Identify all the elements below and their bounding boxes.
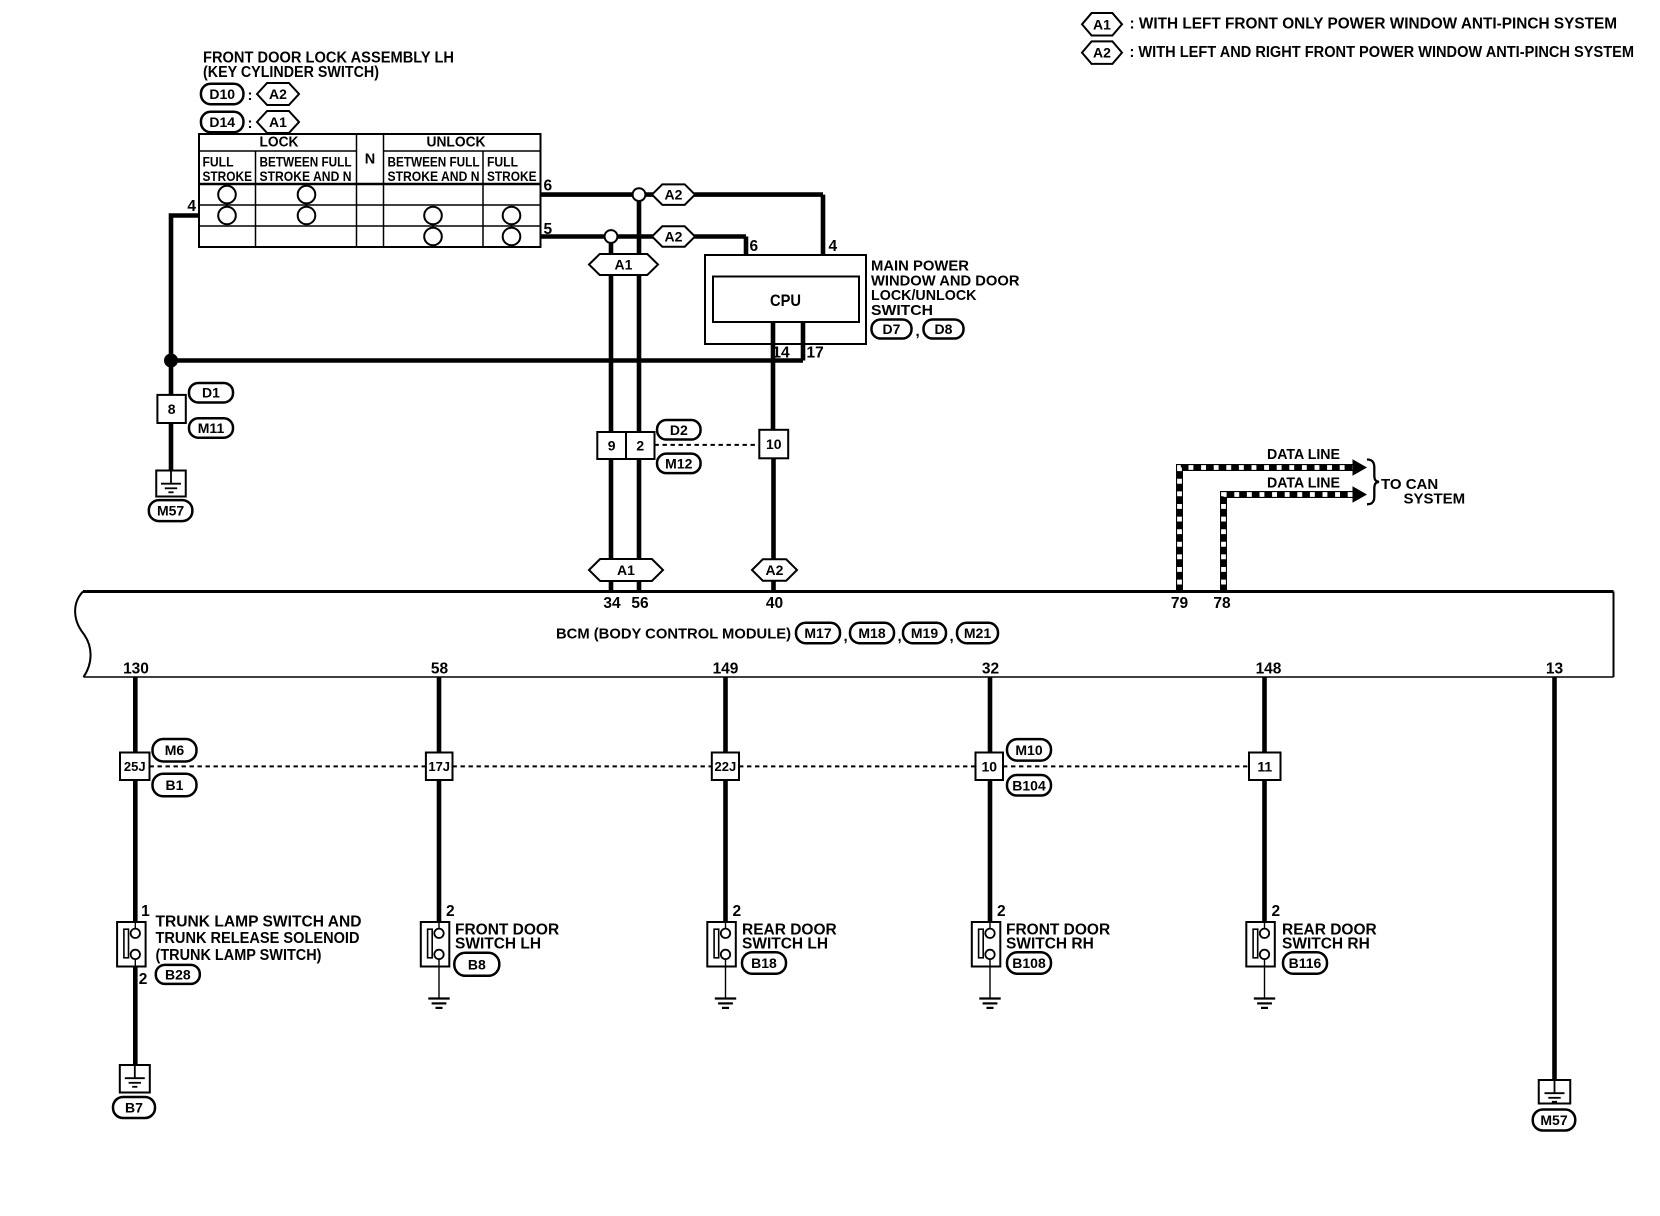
- ground (M57 left): [156, 471, 186, 497]
- svg-text:M18: M18: [858, 625, 885, 641]
- wire CPU pin 14 down: [771, 322, 776, 432]
- svg-text:13: 13: [1546, 661, 1564, 678]
- svg-text:22J: 22J: [715, 759, 737, 774]
- svg-text:1: 1: [141, 903, 150, 920]
- wire front door switch LH to ground: [438, 967, 440, 999]
- ground (B7): [120, 1065, 150, 1093]
- svg-text:A1: A1: [269, 114, 287, 130]
- svg-text:B108: B108: [1012, 955, 1046, 971]
- front door switch LH symbol: [421, 922, 450, 967]
- svg-text:STROKE AND N: STROKE AND N: [260, 168, 352, 184]
- svg-text:32: 32: [982, 661, 999, 678]
- wire pin6 from table to A2: [541, 192, 824, 197]
- svg-text:8: 8: [168, 401, 176, 417]
- wire BCM pin148 to rear door switch RH: [1262, 677, 1267, 922]
- wire BCM pin32 to front door switch RH: [988, 677, 993, 922]
- svg-text:B8: B8: [468, 956, 486, 972]
- wire bus from junction to CPU pin17: [171, 358, 803, 363]
- svg-text:4: 4: [187, 198, 196, 215]
- svg-text:DATA LINE: DATA LINE: [1267, 476, 1340, 492]
- svg-text:2: 2: [733, 903, 742, 920]
- svg-text:4: 4: [829, 238, 838, 255]
- svg-text:A2: A2: [1093, 45, 1111, 61]
- svg-text:D7: D7: [883, 321, 901, 337]
- junction node on pin6 wire: [633, 188, 646, 201]
- connector D7: [872, 320, 912, 339]
- wire node branch left (x611): [609, 237, 614, 592]
- svg-text:5: 5: [544, 221, 553, 238]
- svg-text:17: 17: [807, 345, 824, 362]
- svg-text:D8: D8: [935, 321, 953, 337]
- data line wire (pin 79): [1180, 468, 1353, 592]
- ground (front door switch RH): [979, 999, 1000, 1008]
- svg-text::: :: [248, 115, 253, 132]
- connector ref A1 (mid): [589, 254, 658, 275]
- connector pin box 17J: [426, 753, 453, 781]
- svg-text:17J: 17J: [428, 759, 450, 774]
- switch contacts unlock between-full-stroke: [424, 207, 442, 246]
- ground (front door switch LH): [428, 999, 449, 1008]
- svg-text:(KEY CYLINDER SWITCH): (KEY CYLINDER SWITCH): [203, 64, 379, 81]
- connector pin box 9: [597, 432, 626, 459]
- svg-text:79: 79: [1171, 595, 1189, 612]
- wire BCM pin130 to trunk switch: [133, 677, 138, 922]
- connector pin box 10 (D2/M12): [759, 430, 788, 459]
- svg-text:25J: 25J: [124, 759, 146, 774]
- svg-text:B104: B104: [1012, 777, 1046, 793]
- connector pin box 25J: [120, 753, 150, 781]
- connector M10: [1007, 739, 1051, 761]
- switch contacts unlock full-stroke: [503, 207, 521, 246]
- rear door switch RH symbol: [1246, 922, 1275, 967]
- svg-text:130: 130: [123, 661, 149, 678]
- svg-text:58: 58: [431, 661, 449, 678]
- svg-text:,: ,: [898, 628, 902, 645]
- wire node branch right (x639): [637, 195, 642, 592]
- svg-text:2: 2: [997, 903, 1006, 920]
- svg-text:,: ,: [950, 628, 954, 645]
- svg-text:M12: M12: [665, 455, 692, 471]
- svg-text:M17: M17: [804, 625, 831, 641]
- BCM body control module box: [75, 592, 1613, 678]
- svg-text:D1: D1: [202, 385, 220, 401]
- main power window switch outer box: [705, 255, 866, 344]
- svg-text:B116: B116: [1289, 955, 1322, 971]
- connector ref A1 (above BCM): [589, 559, 663, 581]
- svg-text:2: 2: [1272, 903, 1281, 920]
- connector D1: [189, 383, 233, 403]
- key cylinder switch table grid: [199, 134, 541, 247]
- ground name M57 (left): [149, 500, 193, 521]
- connector ref A1 (D14): [257, 111, 299, 133]
- svg-text:11: 11: [1257, 758, 1272, 774]
- connector pin box 8: [157, 395, 185, 423]
- ground (rear door switch RH): [1254, 999, 1275, 1008]
- svg-text:D14: D14: [209, 114, 235, 130]
- connector M11: [189, 418, 233, 438]
- svg-text:B1: B1: [166, 777, 184, 793]
- legend connector A1: [1082, 13, 1122, 36]
- dashed connector link D2/M12: [655, 444, 760, 446]
- svg-text:TRUNK RELEASE SOLENOID: TRUNK RELEASE SOLENOID: [156, 930, 360, 947]
- svg-text:M11: M11: [198, 420, 225, 436]
- svg-text:UNLOCK: UNLOCK: [427, 135, 486, 151]
- svg-text:,: ,: [916, 323, 920, 340]
- connector B108: [1007, 952, 1051, 974]
- svg-text:B18: B18: [751, 955, 777, 971]
- junction node on pin5 wire: [605, 230, 618, 243]
- svg-text:10: 10: [766, 436, 782, 452]
- svg-text:M19: M19: [911, 625, 938, 641]
- wire front door switch RH to ground: [989, 967, 991, 999]
- connector pin box 2: [626, 432, 655, 459]
- wire rear door switch RH to ground: [1264, 967, 1266, 999]
- CPU inner box: [713, 277, 859, 323]
- connector ref A2 (pin5 wire): [652, 226, 695, 247]
- svg-text:: WITH LEFT FRONT ONLY POWER W: : WITH LEFT FRONT ONLY POWER WINDOW ANTI…: [1130, 16, 1618, 33]
- switch contacts lock full-stroke: [218, 186, 236, 225]
- svg-text:B7: B7: [125, 1100, 143, 1116]
- svg-text:34: 34: [603, 595, 621, 612]
- svg-text:SWITCH LH: SWITCH LH: [455, 936, 541, 953]
- svg-text:A1: A1: [1093, 16, 1111, 32]
- brace to CAN system: [1367, 460, 1379, 505]
- connector pin box 11: [1249, 753, 1281, 781]
- data line wire (pin 78): [1224, 495, 1353, 592]
- svg-text:148: 148: [1256, 661, 1282, 678]
- connector ref A2 (D10): [257, 83, 299, 105]
- connector ref A2 (above BCM): [752, 559, 797, 581]
- connector M18: [850, 623, 894, 644]
- connector D14: [201, 112, 244, 133]
- svg-text:149: 149: [713, 661, 739, 678]
- svg-text:DATA LINE: DATA LINE: [1267, 447, 1340, 463]
- connector M21: [957, 623, 998, 644]
- svg-text:A1: A1: [617, 562, 635, 578]
- connector D2: [657, 420, 701, 440]
- svg-text:STROKE AND N: STROKE AND N: [388, 168, 480, 184]
- ground (M57 right): [1539, 1080, 1571, 1104]
- wire rear door switch LH to ground: [725, 967, 727, 999]
- svg-text:D10: D10: [209, 86, 235, 102]
- wire trunk switch to ground: [133, 967, 138, 1066]
- connector B8: [454, 953, 499, 976]
- svg-text:2: 2: [446, 903, 455, 920]
- svg-text:SYSTEM: SYSTEM: [1404, 490, 1466, 507]
- junction dot: [164, 354, 178, 368]
- svg-text:LOCK: LOCK: [260, 135, 299, 151]
- connector ref A2 (pin6 wire): [652, 184, 695, 205]
- svg-text:6: 6: [544, 178, 553, 195]
- connector B104: [1007, 775, 1051, 796]
- wire pin5 from table to A2: [541, 234, 747, 239]
- svg-text:BCM (BODY CONTROL MODULE): BCM (BODY CONTROL MODULE): [556, 625, 791, 642]
- svg-text:A2: A2: [269, 86, 287, 102]
- connector B1: [153, 774, 197, 797]
- connector B18: [742, 952, 786, 974]
- connector D10: [201, 84, 244, 105]
- svg-text:40: 40: [766, 595, 783, 612]
- legend connector A2: [1082, 41, 1122, 64]
- connector pin box 10 (joint): [976, 753, 1004, 781]
- svg-text:9: 9: [608, 438, 616, 454]
- svg-text:B28: B28: [165, 966, 191, 982]
- ground name M57 (right): [1533, 1110, 1576, 1131]
- switch contacts lock between-full-stroke: [298, 186, 316, 225]
- svg-text:A2: A2: [665, 229, 683, 245]
- svg-text:SWITCH RH: SWITCH RH: [1006, 936, 1094, 953]
- svg-text::: :: [248, 87, 253, 104]
- connector B28: [156, 965, 200, 984]
- wire BCM pin13 to ground: [1552, 677, 1557, 1080]
- wire A2 branch down to CPU pin 6: [744, 237, 749, 277]
- wire BCM pin58 to front door switch LH: [437, 677, 442, 922]
- svg-text:N: N: [365, 152, 375, 168]
- data line arrow 2: [1353, 486, 1368, 503]
- svg-text:SWITCH LH: SWITCH LH: [742, 936, 828, 953]
- svg-text:M57: M57: [1540, 1112, 1567, 1128]
- connector M12: [657, 454, 701, 474]
- ground (rear door switch LH): [715, 999, 736, 1008]
- svg-text:SWITCH: SWITCH: [871, 302, 933, 319]
- wire pin4 from table to ground branch: [171, 216, 199, 471]
- svg-text:CPU: CPU: [770, 292, 801, 310]
- connector B116: [1283, 952, 1327, 974]
- svg-text:M57: M57: [157, 503, 184, 519]
- svg-text:STROKE: STROKE: [487, 168, 537, 184]
- connector M17: [796, 623, 840, 644]
- ground name B7: [113, 1097, 155, 1118]
- svg-text:(TRUNK LAMP SWITCH): (TRUNK LAMP SWITCH): [156, 947, 322, 964]
- connector pin box 22J: [712, 753, 739, 781]
- connector D8: [924, 320, 964, 339]
- data line arrow 1: [1353, 459, 1368, 476]
- svg-text:,: ,: [844, 628, 848, 645]
- connector M19: [903, 623, 946, 644]
- wire A2 branch down to CPU pin 4: [821, 195, 826, 277]
- svg-text:56: 56: [631, 595, 649, 612]
- svg-text:A2: A2: [766, 562, 784, 578]
- svg-text:2: 2: [139, 971, 148, 988]
- svg-text:10: 10: [981, 758, 997, 774]
- front door switch RH symbol: [972, 922, 1001, 967]
- svg-text:78: 78: [1213, 595, 1231, 612]
- svg-text:M21: M21: [964, 625, 991, 641]
- svg-text:A1: A1: [615, 257, 633, 273]
- svg-text:2: 2: [636, 438, 644, 454]
- wire BCM pin149 to rear door switch LH: [723, 677, 728, 922]
- wire pin40 down to BCM: [771, 458, 776, 591]
- svg-text:SWITCH RH: SWITCH RH: [1282, 936, 1370, 953]
- rear door switch LH symbol: [707, 922, 736, 967]
- svg-text:6: 6: [750, 238, 759, 255]
- svg-text:M6: M6: [165, 742, 185, 758]
- svg-text:: WITH LEFT AND RIGHT FRONT PO: : WITH LEFT AND RIGHT FRONT POWER WINDOW…: [1130, 44, 1635, 61]
- trunk lamp switch symbol: [117, 922, 146, 967]
- dashed joint harness line: [150, 765, 426, 767]
- svg-text:TRUNK LAMP SWITCH AND: TRUNK LAMP SWITCH AND: [156, 914, 362, 931]
- svg-text:A2: A2: [665, 187, 683, 203]
- wire CPU pin 17 down: [801, 322, 806, 361]
- svg-text:M10: M10: [1015, 742, 1042, 758]
- connector M6: [153, 739, 197, 762]
- svg-text:STROKE: STROKE: [203, 168, 253, 184]
- svg-text:D2: D2: [670, 422, 688, 438]
